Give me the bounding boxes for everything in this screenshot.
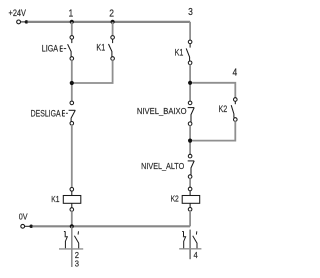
wire cross-reference K2 bar	[179, 248, 201, 250]
junction column3 branch K2 top	[188, 81, 192, 85]
cross-reference K1 NC glyph	[64, 231, 67, 248]
svg-text:DESLIGA: DESLIGA	[31, 107, 61, 118]
svg-text:K2: K2	[171, 194, 179, 204]
coil K1	[63, 188, 81, 212]
svg-text:4: 4	[193, 250, 198, 259]
svg-text:4: 4	[232, 67, 237, 78]
wire cross-reference K1 stem	[71, 226, 73, 267]
wire coil K1 to bottom rail	[71, 211, 73, 226]
wire cross-reference K2 stem	[189, 230, 191, 260]
svg-text:NIVEL_BAIXO: NIVEL_BAIXO	[137, 107, 187, 116]
wire column2 rail to K1 contact	[112, 22, 114, 36]
contact K1 (NO) column2	[109, 36, 115, 61]
svg-text:LIGA: LIGA	[42, 44, 59, 54]
svg-text:2: 2	[109, 8, 114, 19]
wire column3 NIVEL_ALTO to coil K2	[189, 178, 191, 187]
cross-reference K2 NC glyph	[182, 231, 185, 248]
wire column1 LIGA to junction	[71, 60, 73, 101]
wire branch K2 bottom	[192, 121, 235, 140]
wire cross-reference K1 bar	[59, 248, 83, 250]
wire column3 K1 to junction	[189, 65, 191, 102]
svg-text:K1: K1	[51, 194, 59, 204]
wire column3 NIVEL_BAIXO to junction2	[189, 125, 191, 154]
terminal 0V	[21, 224, 33, 228]
svg-text:+24V: +24V	[9, 7, 27, 18]
cross-reference K1 NO glyph	[74, 231, 78, 248]
junction column1 branch	[70, 81, 74, 85]
coil K2	[182, 187, 200, 211]
svg-text:1: 1	[68, 8, 73, 19]
contact NIVEL_BAIXO (NC)	[188, 101, 195, 125]
wire branch K2 top	[192, 83, 235, 98]
svg-text:K1: K1	[175, 48, 184, 58]
wire column1 DESLIGA to coil K1	[71, 125, 73, 188]
svg-text:NIVEL_ALTO: NIVEL_ALTO	[141, 161, 184, 171]
svg-text:3: 3	[188, 7, 193, 18]
junction column 1 / top rail	[70, 20, 74, 24]
wire coil K2 to bottom rail	[189, 211, 191, 226]
svg-text:K1: K1	[96, 43, 105, 53]
contact K2 (NO) column4	[231, 98, 237, 122]
contact NIVEL_ALTO (NC)	[188, 154, 195, 178]
terminal +24V	[17, 20, 28, 24]
cross-reference K2 NO glyph	[193, 231, 197, 248]
svg-text:K2: K2	[219, 104, 228, 114]
wire column3 down from rail corner	[189, 22, 191, 40]
wire column2 K1 to branch corner	[73, 60, 113, 83]
wire bottom rail	[32, 225, 190, 227]
junction column 2 / top rail	[111, 20, 115, 24]
pushbutton DESLIGA (NC)	[62, 101, 75, 125]
contact K1 (NO) column3	[186, 40, 192, 64]
wire top rail	[28, 21, 191, 23]
svg-text:3: 3	[75, 259, 80, 268]
svg-text:0V: 0V	[19, 212, 29, 222]
pushbutton LIGA (NO)	[60, 36, 73, 61]
junction column3 branch K2 bottom	[188, 139, 192, 143]
wire column1 rail to LIGA	[71, 22, 73, 36]
junction column1 / bottom rail	[70, 224, 74, 228]
